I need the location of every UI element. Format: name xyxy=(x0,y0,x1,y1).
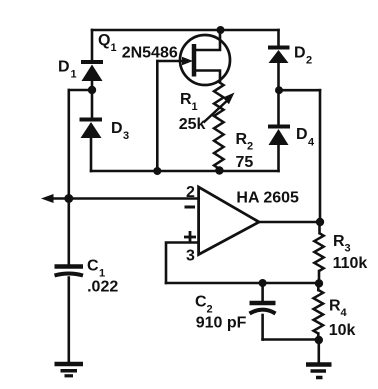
wire left column upper xyxy=(68,90,71,265)
svg-text:D: D xyxy=(111,120,123,137)
svg-text:D: D xyxy=(58,59,70,76)
wire D2 to D4 xyxy=(277,63,280,128)
node B: D2/D4 junction xyxy=(275,86,283,94)
label minus input xyxy=(185,206,196,209)
svg-text:110k: 110k xyxy=(333,255,368,272)
label D3 xyxy=(111,120,129,142)
resistor R3 xyxy=(314,233,323,271)
arrow (output to scope, left) xyxy=(41,194,54,203)
svg-text:R: R xyxy=(333,233,345,250)
resistor R1 R2 zigzag xyxy=(214,82,224,169)
label R3 xyxy=(333,233,351,255)
svg-text:C: C xyxy=(87,258,99,275)
svg-text:.022: .022 xyxy=(87,279,118,296)
wire C2 top stub xyxy=(261,283,264,301)
capacitor C1 xyxy=(55,267,84,276)
node: inverting input / C1 junction xyxy=(64,194,73,203)
transistor Q1 channel bar xyxy=(192,44,197,77)
diode D4 xyxy=(268,127,290,146)
wire noninverting input xyxy=(166,243,199,284)
wire feedback node row xyxy=(166,282,319,285)
wire node A to left column xyxy=(69,89,92,92)
transistor Q1 gate arrow xyxy=(182,57,193,65)
wire feedback column xyxy=(319,90,322,222)
wire gate horizontal xyxy=(157,60,186,63)
op-amp U1 triangle xyxy=(199,187,259,255)
svg-text:D: D xyxy=(294,45,306,62)
wire inverting input xyxy=(51,197,199,200)
svg-text:3: 3 xyxy=(345,243,351,255)
wire bottom rail xyxy=(91,170,279,173)
wire D4 bottom xyxy=(277,145,280,172)
node A: D1/D3 junction xyxy=(88,86,96,94)
wire C2 to R4 bottom xyxy=(263,338,319,341)
wire R4 top stub xyxy=(317,283,320,290)
node: C2 top junction xyxy=(259,279,267,287)
svg-text:2: 2 xyxy=(247,141,253,153)
svg-text:1: 1 xyxy=(111,42,117,54)
wire D2 chain right xyxy=(277,30,280,48)
label R2 xyxy=(236,131,254,153)
svg-text:R: R xyxy=(180,91,192,108)
svg-text:3: 3 xyxy=(186,248,195,265)
wire right ground stub xyxy=(317,340,320,362)
svg-text:C: C xyxy=(195,294,207,311)
svg-text:10k: 10k xyxy=(329,322,356,339)
diode D2 xyxy=(268,48,290,64)
ground (left, under C1) xyxy=(55,364,84,376)
transistor Q1 source lead xyxy=(195,71,220,83)
label D2 xyxy=(294,45,312,67)
wire D1 top drop xyxy=(91,30,94,61)
label R4 xyxy=(329,298,348,320)
resistor R1 wiper arrow xyxy=(204,98,231,123)
wire R3 bottom stub xyxy=(318,271,321,283)
wire gate vertical xyxy=(156,61,159,171)
label D4 xyxy=(296,126,315,149)
node: R2 / bottom rail junction xyxy=(215,166,223,174)
diode D1 xyxy=(81,62,103,81)
svg-text:R: R xyxy=(236,131,248,148)
svg-text:1: 1 xyxy=(192,101,198,113)
node: output junction xyxy=(316,218,324,226)
capacitor C2 xyxy=(250,303,276,314)
label plus input xyxy=(184,231,196,243)
svg-text:D: D xyxy=(296,126,308,143)
svg-text:2: 2 xyxy=(306,55,312,67)
wire R4 bottom stub xyxy=(317,334,320,341)
wire node B to feedback column xyxy=(279,89,320,92)
transistor Q1 circle xyxy=(180,35,230,85)
node: R4 bottom / C2 junction xyxy=(315,336,323,344)
wire top rail xyxy=(92,29,279,32)
svg-text:R: R xyxy=(329,298,341,315)
resistor R4 xyxy=(314,290,324,334)
svg-text:2: 2 xyxy=(186,184,195,201)
node: R3/R4 junction xyxy=(315,279,323,287)
label D1 xyxy=(58,59,77,81)
wire D3 bottom xyxy=(90,138,93,172)
svg-text:4: 4 xyxy=(308,137,315,149)
svg-text:4: 4 xyxy=(341,307,348,319)
transistor Q1 drain lead xyxy=(195,30,220,50)
svg-text:2N5486: 2N5486 xyxy=(122,45,178,62)
svg-text:3: 3 xyxy=(123,130,129,142)
svg-text:1: 1 xyxy=(71,69,77,81)
wire output xyxy=(259,221,320,224)
svg-text:910 pF: 910 pF xyxy=(196,315,247,332)
label C2 xyxy=(195,294,213,316)
label C1 xyxy=(87,258,105,280)
label Q1 xyxy=(98,32,117,54)
ground (right, under R4) xyxy=(306,365,332,378)
wire left column lower xyxy=(68,278,71,362)
svg-text:HA 2605: HA 2605 xyxy=(236,190,299,207)
diode D3 xyxy=(80,120,103,139)
label R1 xyxy=(180,91,198,113)
wire D1 to node A xyxy=(91,81,94,119)
svg-text:25k: 25k xyxy=(179,116,206,133)
svg-text:75: 75 xyxy=(236,154,254,171)
wire R3 top stub xyxy=(318,222,321,233)
node: gate / bottom rail junction xyxy=(153,167,161,175)
svg-text:Q: Q xyxy=(98,32,110,49)
wire C2 bottom stub xyxy=(261,315,264,340)
node: top rail / drain junction xyxy=(217,26,225,34)
